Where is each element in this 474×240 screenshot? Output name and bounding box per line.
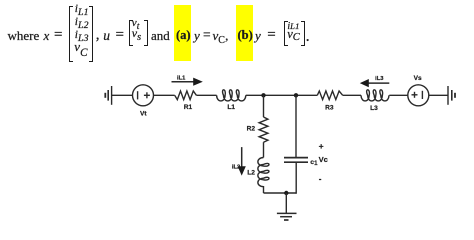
svg-text:+: + <box>319 141 324 151</box>
current arrow iL2 <box>238 147 246 176</box>
formula text: (b) <box>238 29 253 42</box>
bottom wire rail <box>264 192 297 194</box>
ground left (rotated, 3 bars) <box>105 86 111 105</box>
wire ground-left to Vt <box>112 94 133 96</box>
inductor L2 <box>258 158 269 187</box>
svg-text:Vt: Vt <box>140 110 147 117</box>
formula text: , u = <box>96 28 100 43</box>
formula text: and <box>151 29 170 42</box>
svg-text:iL2: iL2 <box>232 165 240 171</box>
svg-text:L3: L3 <box>370 105 378 112</box>
wire L3 to Vs <box>389 94 408 96</box>
svg-text:L1: L1 <box>227 104 235 111</box>
svg-text:iL3: iL3 <box>375 76 384 82</box>
highlight (a) <box>174 5 191 61</box>
svg-text:L2: L2 <box>247 170 255 177</box>
wire R2 to L2 <box>263 142 265 157</box>
matrix x = [iL1 iL2 iL3 vC] <box>69 6 94 62</box>
formula text: where x = <box>8 29 40 42</box>
formula text: y = <box>255 29 261 42</box>
inductor L3 <box>361 90 389 101</box>
resistor R3 <box>317 91 342 100</box>
highlight (b) <box>236 5 253 61</box>
svg-text:iL1: iL1 <box>177 76 186 82</box>
wire Vt to R1 <box>154 94 175 96</box>
matrix u = [vt vs] <box>129 20 148 46</box>
current arrow iL1 <box>172 78 203 86</box>
voltage source Vt <box>133 85 154 106</box>
formula text: y = vC, <box>194 29 200 42</box>
wire node B down to capacitor <box>295 95 297 157</box>
wire R3 to L3 <box>343 94 361 96</box>
svg-text:Vc: Vc <box>319 155 328 164</box>
node A junction dot <box>261 93 265 97</box>
svg-text:Vs: Vs <box>414 75 422 82</box>
formula text: period <box>306 29 310 45</box>
svg-text:c1: c1 <box>310 159 318 167</box>
ground right (rotated, 3 bars) <box>448 86 455 105</box>
current arrow iL3 <box>360 79 390 87</box>
capacitor C1 <box>284 158 308 163</box>
ground (earth) symbol <box>277 213 297 220</box>
node B junction dot <box>294 93 298 97</box>
wire R1 to L1 <box>196 94 216 96</box>
svg-text:-: - <box>319 175 322 184</box>
wire L1 to R3 across nodes <box>246 94 317 96</box>
inductor L1 <box>217 90 246 101</box>
resistor R2 <box>259 117 268 142</box>
matrix y = [iL1 vC] <box>284 21 305 46</box>
wire node A down to R2 <box>263 95 265 117</box>
svg-text:R3: R3 <box>325 104 334 111</box>
formula text: (a) <box>176 29 191 42</box>
svg-text:R1: R1 <box>184 104 193 111</box>
wire Vs to ground right <box>429 94 448 96</box>
ground stub wire <box>285 193 287 213</box>
resistor R1 <box>175 91 197 100</box>
wire capacitor to bottom rail <box>295 162 297 194</box>
svg-text:R2: R2 <box>247 125 256 132</box>
bottom junction dot <box>284 191 288 195</box>
voltage source Vs <box>408 85 429 106</box>
wire L2 to bottom rail <box>263 186 265 193</box>
